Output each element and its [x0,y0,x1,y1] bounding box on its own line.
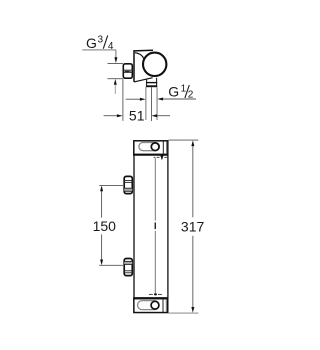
lower inlet nut (front view) [124,259,132,276]
G 1/2 left arrow [126,98,141,100]
top housing end-cap lines [162,141,164,154]
bottom housing stadium [138,301,159,310]
leader underline of G 3/4 [82,49,116,51]
top housing stadium [139,143,160,151]
casting bottom diagonal [134,78,153,82]
fraction slash of G 3/4 [103,35,107,48]
up arrow below nut (G 3/4) [114,79,117,85]
dim 150 arrows [100,186,103,192]
svg-text:150: 150 [93,218,117,234]
cartridge circle (top view) [143,53,166,76]
dim 51 left arrow [104,115,118,117]
top housing bottom thick edge [133,154,168,156]
body bar right edge [167,155,169,298]
outlet collar band 1 [146,82,157,83]
casting fillet arc [135,53,144,59]
dim 317 arrows [191,140,194,146]
svg-text:G: G [168,84,179,100]
bottom housing end-cap lines [162,299,164,312]
bottom marker dot [154,293,157,295]
label G 3/4 [86,35,114,52]
dim 317 line [192,146,194,217]
svg-text:1: 1 [181,84,187,95]
outlet pipe lines [145,87,147,120]
bottom housing top thick edge [133,297,168,299]
bottom housing knob circle [151,301,159,309]
label G 1/2 [168,84,194,101]
svg-text:G: G [86,35,97,51]
outlet fitting sides [146,79,148,87]
body bar left edge [133,155,135,298]
fraction slash of G 1/2 [185,85,189,98]
wall union nut (top view) [123,64,132,78]
outlet pipe center line [151,87,153,121]
ground extension line [169,312,199,314]
top marker dash-dot line [154,156,168,158]
extension line nut top [108,63,124,65]
svg-text:3: 3 [98,35,104,46]
top housing knob circle [151,143,159,151]
dim 51 left extension line [122,79,124,121]
bar center line [154,158,156,221]
dim 150 extension lines [99,184,123,186]
svg-text:51: 51 [129,107,145,123]
top marker arrow [160,155,163,160]
leader vertical with down arrow (G 3/4) [115,50,117,58]
G 1/2 right arrow with leader underline [157,98,163,101]
svg-text:317: 317 [181,219,205,235]
dim 317 top extension line [169,139,199,141]
outlet collar band 2 [146,85,157,87]
bottom housing [134,299,168,313]
upper inlet nut (front view) [124,176,132,193]
extension line nut bottom [108,78,124,80]
top housing [134,141,168,155]
dim 150 line [101,191,103,218]
bottom marker dash-dot line [149,293,162,295]
valve body casting (top view) [134,50,153,82]
dim 51 right arrow [151,114,157,117]
